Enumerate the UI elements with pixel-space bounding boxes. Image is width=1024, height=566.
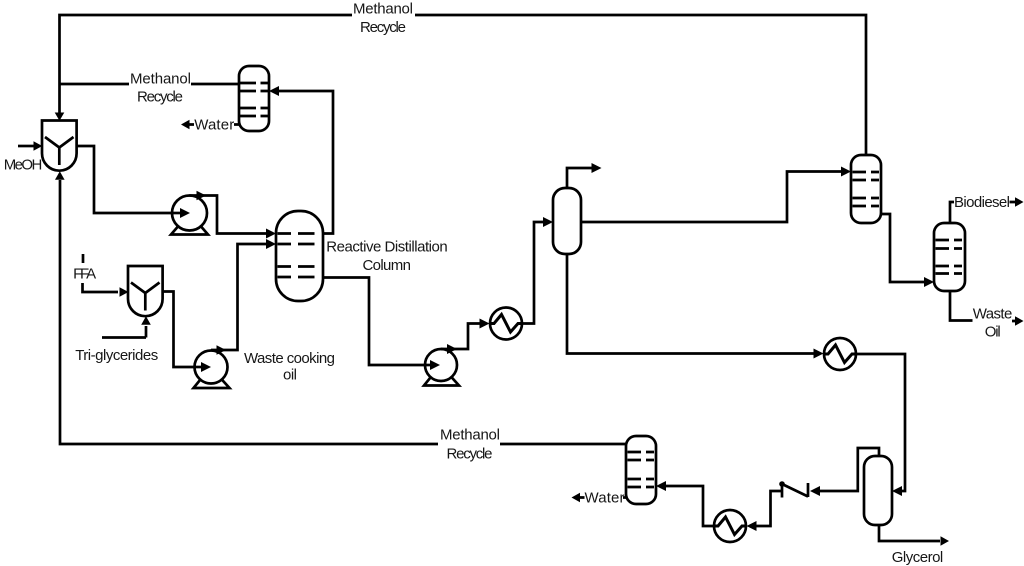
- svg-text:Biodiesel: Biodiesel: [954, 194, 1010, 211]
- svg-text:Recycle: Recycle: [137, 89, 183, 106]
- column B biodiesel column: [934, 223, 965, 291]
- svg-text:Methanol: Methanol: [130, 71, 191, 88]
- wire column B overhead Biodiesel: [950, 197, 1024, 223]
- label Methanol Recycle (bottom): [440, 427, 500, 463]
- label Waste Oil: [973, 306, 1013, 341]
- heat exchanger HX1: [490, 308, 522, 340]
- wire valve outlet to HX3: [747, 491, 783, 531]
- pump P1: [171, 196, 208, 235]
- glycerol drum D1: [864, 456, 892, 525]
- wire top methanol recycle (left segment): [55, 15, 352, 121]
- wire top methanol recycle (right segment, down to column top): [415, 15, 866, 155]
- svg-text:Waste: Waste: [973, 306, 1013, 323]
- wire column B bottoms Waste Oil: [950, 291, 1024, 326]
- wire bottom methanol recycle from column C2 to mixer M1: [55, 171, 626, 444]
- svg-text:Glycerol: Glycerol: [892, 549, 944, 566]
- wire D1 overhead to valve: [810, 448, 879, 496]
- svg-text:Column: Column: [362, 257, 411, 274]
- column C1 methanol/water column (top left): [239, 66, 269, 131]
- valve V1 (letdown valve): [779, 481, 808, 497]
- wire HX3 outlet to column C2: [656, 481, 714, 526]
- wire tri-glycerides feed: [102, 316, 151, 337]
- wire M1 outlet to pump P1: [77, 146, 190, 218]
- label Waste cooking oil: [244, 350, 335, 384]
- svg-text:FFA: FFA: [73, 266, 96, 283]
- wire HX2 outlet to glycerol drum D1: [856, 354, 905, 496]
- svg-text:Methanol: Methanol: [353, 1, 413, 18]
- heat exchanger HX2: [824, 338, 856, 370]
- wire mid methanol recycle (right segment from column C1): [191, 83, 239, 86]
- wire MeOH feed: [18, 141, 42, 151]
- svg-text:Water: Water: [194, 116, 234, 133]
- pump P2: [194, 351, 230, 389]
- label Reactive Distillation Column: [326, 238, 448, 274]
- wire RDC vapor to C1: [269, 86, 333, 234]
- svg-text:Recycle: Recycle: [360, 19, 406, 36]
- label Methanol Recycle (middle): [130, 71, 191, 106]
- svg-text:oil: oil: [283, 367, 297, 384]
- wire FFA feed tick: [82, 254, 85, 263]
- wire mid methanol recycle (left segment to junction): [60, 83, 130, 86]
- wire water outlet of C2: [572, 493, 627, 503]
- wire M2 outlet to pump P2: [163, 292, 211, 373]
- wire P2 outlet to RDC feed 2: [211, 239, 276, 355]
- wire column A bottoms to column B: [881, 214, 934, 287]
- svg-text:Waste cooking: Waste cooking: [244, 350, 335, 367]
- reactive distillation column RDC: [276, 211, 323, 301]
- wire F1 bottoms to heat exchanger HX2: [567, 254, 824, 359]
- flash column F1: [553, 188, 581, 254]
- mixer M2 (FFA / tri-glycerides mixer): [128, 266, 163, 316]
- wire RDC bottoms to pump P3: [323, 278, 440, 371]
- wire P1 outlet to RDC feed 1: [190, 191, 277, 239]
- svg-text:Methanol: Methanol: [440, 427, 500, 444]
- wire F1 vapor vent: [567, 163, 602, 188]
- wire P3 outlet to heat exchanger HX1: [441, 319, 490, 355]
- svg-text:MeOH: MeOH: [4, 157, 43, 174]
- column A methanol recovery column (right): [851, 155, 881, 223]
- heat exchanger HX3: [714, 510, 746, 542]
- wire HX1 outlet to flash column F1: [522, 217, 553, 324]
- wire water outlet of C1: [181, 120, 239, 130]
- label Methanol Recycle (top): [353, 1, 413, 37]
- wire FFA feed: [83, 283, 129, 297]
- wire D1 bottoms Glycerol outlet: [879, 525, 949, 546]
- svg-text:Reactive Distillation: Reactive Distillation: [326, 238, 448, 255]
- pump P3: [424, 349, 459, 386]
- mixer M1 (MeOH mixer): [42, 121, 77, 171]
- column C2 methanol/water column (bottom): [626, 436, 656, 504]
- wire F1 overhead to column A: [581, 167, 851, 223]
- svg-text:Oil: Oil: [985, 324, 1001, 341]
- svg-text:Tri-glycerides: Tri-glycerides: [75, 347, 158, 364]
- svg-text:Recycle: Recycle: [447, 446, 493, 463]
- svg-text:Water: Water: [585, 489, 625, 506]
